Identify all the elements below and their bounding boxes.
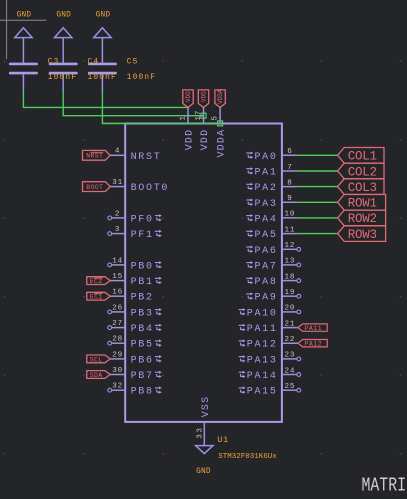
pin 20 PA10 (right)	[239, 305, 301, 320]
pin 2 PF0 (left)	[108, 210, 162, 225]
pin 22 PA12 (right)	[239, 336, 298, 351]
global label EC1	[87, 292, 110, 300]
pin 6 PA0 (right)	[246, 148, 297, 163]
svg-text:21: 21	[285, 320, 296, 328]
svg-text:PF0: PF0	[131, 214, 154, 225]
hierarchical label ROW1	[338, 195, 386, 211]
svg-text:14: 14	[112, 257, 123, 265]
svg-text:PA2: PA2	[254, 183, 277, 194]
svg-text:8: 8	[287, 179, 292, 187]
svg-text:15: 15	[112, 273, 123, 281]
pin 16 PB2 (left)	[110, 289, 154, 304]
svg-text:U1: U1	[217, 435, 229, 445]
svg-text:9: 9	[287, 195, 292, 203]
pin 32 PB8 (left)	[108, 383, 162, 398]
svg-text:31: 31	[112, 179, 123, 187]
wire PA3 to ROW1	[298, 201, 338, 203]
pin 21 PA11 (right)	[239, 320, 298, 335]
svg-text:13: 13	[285, 258, 296, 266]
svg-text:VSS: VSS	[201, 396, 212, 418]
svg-text:PA5: PA5	[254, 230, 277, 241]
global label NRST	[83, 150, 111, 160]
svg-text:GND: GND	[96, 11, 111, 19]
power label VDDA	[215, 89, 225, 107]
wire GND cap to VDD pin	[63, 91, 203, 116]
svg-text:STM32F031K6Ux: STM32F031K6Ux	[218, 453, 277, 461]
pin 23 PA13 (right)	[239, 352, 301, 367]
IC U1 STM32F031K6Ux body	[125, 124, 282, 422]
svg-text:VDD: VDD	[185, 91, 192, 102]
label C4 100nF	[88, 58, 117, 82]
svg-text:22: 22	[285, 336, 296, 344]
pin 11 PA5 (right)	[246, 226, 297, 241]
global label BOOT	[83, 182, 111, 192]
svg-text:25: 25	[285, 383, 296, 391]
wire PA2 to COL3	[298, 186, 338, 188]
label C3 100nF	[48, 58, 77, 82]
svg-text:100nF: 100nF	[127, 74, 156, 82]
svg-text:PB6: PB6	[131, 355, 154, 366]
svg-text:PF1: PF1	[131, 230, 154, 241]
svg-text:4: 4	[115, 148, 120, 156]
svg-text:COL1: COL1	[348, 150, 377, 164]
svg-text:PA14: PA14	[247, 371, 278, 382]
pin 18 PA8 (right)	[246, 273, 300, 288]
svg-text:ROW3: ROW3	[348, 228, 377, 242]
hierarchical label COL1	[338, 148, 384, 164]
svg-text:10: 10	[285, 211, 296, 219]
svg-text:PB5: PB5	[131, 340, 154, 351]
ground	[196, 446, 213, 476]
svg-text:5: 5	[212, 115, 220, 120]
svg-text:100nF: 100nF	[88, 74, 117, 82]
svg-text:PA7: PA7	[254, 261, 277, 272]
pin 29 PB6 (left)	[110, 351, 162, 366]
svg-text:VDD: VDD	[185, 129, 196, 151]
svg-text:ROW1: ROW1	[348, 197, 377, 211]
hierarchical label ROW3	[338, 226, 386, 242]
svg-text:BOOT0: BOOT0	[131, 183, 170, 194]
svg-text:VDDA: VDDA	[217, 129, 228, 158]
wire PA4 to ROW2	[298, 217, 338, 219]
svg-text:EC2: EC2	[90, 278, 103, 285]
pin 24 PA14 (right)	[239, 367, 301, 382]
svg-text:PA11: PA11	[304, 325, 322, 332]
pin 1 VDD (top)	[180, 107, 196, 150]
pin 17 VDD (top)	[195, 107, 211, 150]
svg-text:NRST: NRST	[131, 152, 162, 163]
capacitor C3 100nF	[9, 63, 38, 92]
pin 9 PA3 (right)	[246, 195, 297, 210]
pin 27 PB4 (left)	[108, 320, 162, 335]
power label VDD	[198, 90, 208, 108]
svg-text:PB8: PB8	[131, 387, 154, 398]
junction square pin 17	[201, 113, 206, 118]
wire PA0 to COL1	[298, 154, 338, 156]
svg-text:32: 32	[112, 383, 123, 391]
svg-text:PB1: PB1	[131, 277, 154, 288]
hierarchical label COL3	[338, 179, 384, 195]
hierarchical label COL2	[338, 163, 384, 179]
svg-text:NRST: NRST	[86, 153, 103, 160]
pin 33 VSS (bottom)	[196, 396, 212, 446]
pin 3 PF1 (left)	[108, 226, 162, 241]
svg-text:100nF: 100nF	[48, 74, 77, 82]
pin 5 VDDA (top)	[212, 107, 228, 157]
svg-text:PB2: PB2	[131, 293, 154, 304]
svg-text:1: 1	[180, 115, 188, 120]
svg-text:PA15: PA15	[247, 387, 278, 398]
svg-text:SCL: SCL	[90, 356, 103, 363]
svg-text:C5: C5	[127, 58, 139, 66]
svg-text:2: 2	[115, 210, 120, 218]
pin 30 PB7 (left)	[110, 367, 162, 382]
svg-text:27: 27	[112, 320, 123, 328]
pin 13 PA7 (right)	[246, 258, 300, 273]
global label EC2	[87, 277, 110, 285]
capacitor C5 100nF	[88, 63, 117, 92]
svg-text:18: 18	[285, 273, 296, 281]
svg-text:C4: C4	[88, 58, 100, 66]
svg-text:PB0: PB0	[131, 261, 154, 272]
svg-text:GND: GND	[56, 11, 71, 19]
svg-text:PA12: PA12	[247, 340, 278, 351]
svg-text:PA13: PA13	[247, 355, 278, 366]
svg-text:30: 30	[112, 367, 123, 375]
svg-text:GND: GND	[17, 11, 32, 19]
pin 7 PA1 (right)	[246, 164, 297, 179]
pin 10 PA4 (right)	[246, 211, 297, 226]
svg-text:PA1: PA1	[254, 168, 277, 179]
svg-text:23: 23	[285, 352, 296, 360]
svg-text:ROW2: ROW2	[348, 212, 377, 226]
capacitor C4 100nF	[49, 63, 78, 92]
svg-text:PA3: PA3	[254, 199, 277, 210]
pin 12 PA6 (right)	[246, 242, 300, 257]
net label PA12	[298, 340, 327, 348]
svg-text:VDD: VDD	[200, 129, 211, 151]
svg-text:16: 16	[112, 289, 123, 297]
pin 25 PA15 (right)	[239, 383, 301, 398]
svg-text:PA10: PA10	[247, 308, 278, 319]
svg-text:PA11: PA11	[247, 324, 278, 335]
svg-text:PA9: PA9	[254, 293, 277, 304]
svg-text:6: 6	[287, 148, 292, 156]
power symbol GND	[94, 11, 111, 62]
svg-text:PA0: PA0	[254, 152, 277, 163]
wire GND cap to VDD pin	[23, 91, 188, 107]
svg-text:MATRI: MATRI	[362, 475, 407, 495]
svg-text:COL2: COL2	[348, 165, 377, 179]
power label VDD	[183, 90, 193, 108]
pin 4 NRST (left)	[110, 148, 162, 163]
pin 31 BOOT0 (left)	[110, 179, 169, 194]
svg-text:COL3: COL3	[348, 181, 377, 195]
svg-text:11: 11	[285, 226, 296, 234]
wire over chip top edge	[102, 122, 220, 124]
svg-text:VDD: VDD	[201, 91, 208, 102]
svg-text:SDA: SDA	[90, 372, 103, 379]
svg-text:12: 12	[285, 242, 296, 250]
junction square pin 5	[218, 121, 223, 126]
svg-text:17: 17	[195, 110, 203, 121]
svg-text:7: 7	[287, 164, 292, 172]
svg-text:PA12: PA12	[304, 341, 322, 348]
pin 14 PB0 (left)	[108, 257, 162, 272]
svg-text:PB4: PB4	[131, 324, 154, 335]
pin 15 PB1 (left)	[110, 273, 162, 288]
svg-text:29: 29	[112, 351, 123, 359]
svg-text:C3: C3	[48, 58, 60, 66]
svg-text:PA4: PA4	[254, 214, 277, 225]
svg-text:3: 3	[115, 226, 120, 234]
svg-text:BOOT: BOOT	[86, 184, 103, 191]
net label PA11	[298, 324, 327, 332]
svg-text:20: 20	[285, 305, 296, 313]
svg-text:PB3: PB3	[131, 308, 154, 319]
svg-text:GND: GND	[196, 468, 211, 476]
wire GND cap to VDD pin	[102, 91, 220, 123]
svg-text:24: 24	[285, 367, 296, 375]
pin 28 PB5 (left)	[108, 336, 162, 351]
svg-text:VDDA: VDDA	[217, 89, 224, 104]
svg-text:PA8: PA8	[254, 277, 277, 288]
svg-text:33: 33	[196, 426, 204, 438]
pin 26 PB3 (left)	[108, 304, 162, 319]
pin 19 PA9 (right)	[246, 289, 300, 304]
hierarchical label ROW2	[338, 210, 386, 226]
label C5 100nF	[127, 58, 156, 82]
global label SDA	[87, 371, 110, 379]
svg-text:26: 26	[112, 304, 123, 312]
svg-text:PB7: PB7	[131, 371, 154, 382]
power symbol GND	[15, 11, 32, 62]
wire PA1 to COL2	[298, 170, 338, 172]
svg-text:PA6: PA6	[254, 246, 277, 257]
global label SCL	[87, 355, 110, 363]
svg-text:EC1: EC1	[90, 294, 103, 301]
svg-text:19: 19	[285, 289, 296, 297]
wire PA5 to ROW3	[298, 233, 338, 235]
pin 8 PA2 (right)	[246, 179, 297, 194]
svg-text:28: 28	[112, 336, 123, 344]
power symbol GND	[55, 11, 72, 62]
